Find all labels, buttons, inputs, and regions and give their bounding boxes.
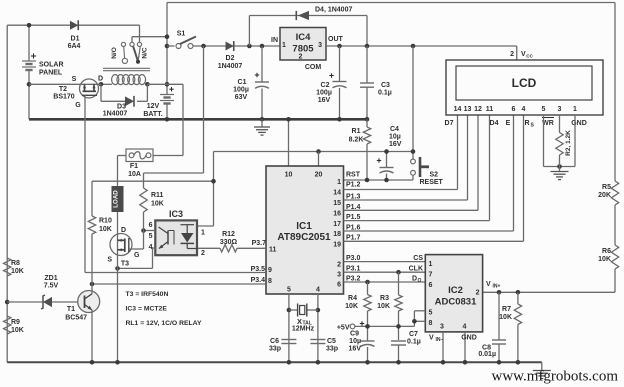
svg-text:16V: 16V (349, 346, 362, 353)
svg-text:V: V (429, 335, 434, 342)
svg-text:ADC0831: ADC0831 (435, 297, 477, 308)
svg-text:R4: R4 (348, 295, 357, 302)
svg-text:19: 19 (333, 242, 341, 249)
svg-text:7: 7 (429, 272, 433, 279)
svg-text:R9: R9 (11, 319, 20, 326)
svg-text:20: 20 (315, 172, 323, 179)
svg-text:ZD1: ZD1 (44, 275, 57, 282)
svg-text:6A4: 6A4 (68, 43, 81, 50)
svg-text:V: V (521, 51, 526, 58)
svg-text:www.mfgrobots.com: www.mfgrobots.com (492, 369, 619, 385)
svg-text:7.5V: 7.5V (44, 283, 59, 290)
svg-text:D: D (412, 276, 417, 283)
svg-text:RST: RST (346, 172, 361, 179)
svg-text:3: 3 (440, 324, 444, 331)
svg-text:S: S (107, 257, 112, 264)
svg-text:F1: F1 (130, 163, 138, 170)
svg-text:10K: 10K (377, 303, 390, 310)
svg-text:2: 2 (201, 250, 205, 257)
svg-text:RL1 = 12V, 1C/O RELAY: RL1 = 12V, 1C/O RELAY (126, 320, 202, 327)
svg-text:4: 4 (522, 106, 526, 113)
svg-text:P3.2: P3.2 (346, 276, 361, 283)
svg-text:T3 = IRF540N: T3 = IRF540N (126, 291, 169, 298)
svg-text:1: 1 (282, 42, 286, 49)
svg-text:8: 8 (429, 320, 433, 327)
svg-text:3: 3 (337, 272, 341, 279)
svg-text:BC547: BC547 (65, 315, 87, 322)
svg-text:16: 16 (333, 211, 341, 218)
svg-text:7805: 7805 (292, 44, 314, 55)
svg-text:IC2: IC2 (448, 285, 463, 296)
svg-text:T3: T3 (121, 261, 129, 268)
svg-text:R2, 1.2K: R2, 1.2K (565, 130, 572, 156)
svg-text:10K: 10K (11, 268, 24, 275)
svg-text:R10: R10 (99, 218, 112, 225)
svg-text:18: 18 (333, 231, 341, 238)
svg-text:SOLAR: SOLAR (39, 62, 64, 69)
svg-text:10K: 10K (99, 226, 112, 233)
svg-text:CLK: CLK (409, 266, 423, 273)
svg-text:GND: GND (461, 335, 477, 342)
svg-text:4: 4 (316, 287, 320, 294)
svg-text:0.01µ: 0.01µ (478, 351, 496, 358)
svg-text:C3: C3 (381, 82, 390, 89)
svg-text:16V: 16V (389, 141, 402, 148)
svg-text:10: 10 (285, 172, 293, 179)
svg-text:V: V (486, 281, 491, 288)
svg-text:S2: S2 (430, 172, 439, 179)
svg-text:P3.5: P3.5 (251, 266, 266, 273)
svg-text:10K: 10K (11, 327, 24, 334)
svg-text:P3.1: P3.1 (346, 266, 361, 273)
svg-text:1: 1 (337, 179, 341, 186)
svg-text:D: D (98, 76, 103, 83)
svg-text:6: 6 (429, 282, 433, 289)
svg-text:20K: 20K (598, 192, 611, 199)
svg-text:RESET: RESET (420, 179, 444, 186)
svg-text:63V: 63V (235, 94, 248, 101)
svg-text:4: 4 (463, 324, 467, 331)
svg-text:G: G (75, 102, 81, 109)
svg-text:C9: C9 (350, 331, 359, 338)
svg-text:O: O (418, 278, 422, 284)
svg-text:LCD: LCD (512, 76, 537, 90)
svg-text:10µ: 10µ (349, 338, 361, 345)
svg-text:P1.7: P1.7 (346, 235, 361, 242)
svg-text:N/C: N/C (142, 47, 149, 59)
svg-text:IN: IN (271, 37, 278, 44)
svg-text:3: 3 (318, 42, 322, 49)
svg-text:1: 1 (573, 106, 577, 113)
svg-text:AT89C2051: AT89C2051 (277, 232, 331, 243)
svg-text:8: 8 (268, 278, 272, 285)
svg-text:9: 9 (268, 267, 272, 274)
svg-text:D: D (121, 227, 126, 234)
svg-text:GND: GND (571, 120, 587, 127)
svg-text:IC1: IC1 (296, 221, 312, 232)
svg-text:14: 14 (454, 106, 462, 113)
svg-text:C4: C4 (390, 126, 399, 133)
svg-text:1: 1 (201, 230, 205, 237)
svg-text:+5V: +5V (337, 325, 350, 332)
svg-text:10A: 10A (128, 171, 141, 178)
svg-text:12MHz: 12MHz (292, 326, 315, 333)
svg-text:T2: T2 (59, 86, 67, 93)
svg-text:10K: 10K (598, 256, 611, 263)
svg-text:R11: R11 (151, 192, 164, 199)
svg-text:IN–: IN– (436, 337, 444, 343)
svg-text:S: S (72, 76, 77, 83)
svg-text:11: 11 (269, 247, 277, 254)
svg-text:0.1µ: 0.1µ (378, 90, 392, 97)
svg-text:P3.4: P3.4 (251, 277, 266, 284)
svg-text:P3.0: P3.0 (346, 255, 361, 262)
svg-text:IC3 = MCT2E: IC3 = MCT2E (126, 306, 168, 313)
svg-text:R5: R5 (602, 184, 611, 191)
svg-text:N/O: N/O (111, 47, 118, 59)
svg-text:R12: R12 (222, 231, 235, 238)
svg-text:D2: D2 (226, 55, 235, 62)
svg-text:CC: CC (526, 54, 533, 59)
svg-text:BS170: BS170 (53, 94, 75, 101)
svg-text:R8: R8 (11, 260, 20, 267)
svg-text:D4: D4 (490, 120, 499, 127)
svg-text:R1: R1 (352, 128, 361, 135)
svg-text:P1.2: P1.2 (346, 182, 361, 189)
svg-text:16V: 16V (318, 97, 331, 104)
svg-text:R7: R7 (502, 306, 511, 313)
svg-text:R6: R6 (602, 248, 611, 255)
svg-text:2: 2 (510, 51, 514, 58)
svg-text:2: 2 (476, 290, 480, 297)
svg-text:P1.5: P1.5 (346, 214, 361, 221)
svg-text:E: E (506, 120, 511, 127)
svg-text:17: 17 (333, 221, 341, 228)
svg-text:G: G (134, 252, 140, 259)
svg-text:LOAD: LOAD (113, 190, 120, 208)
svg-text:5: 5 (429, 310, 433, 317)
svg-text:13: 13 (464, 106, 472, 113)
svg-text:R: R (524, 120, 529, 127)
svg-text:12V: 12V (147, 103, 160, 110)
svg-text:P1.6: P1.6 (346, 224, 361, 231)
svg-text:33p: 33p (326, 346, 338, 353)
svg-text:COM: COM (305, 64, 322, 71)
svg-text:2: 2 (299, 54, 303, 61)
svg-text:10K: 10K (499, 314, 512, 321)
svg-text:330Ω: 330Ω (220, 239, 238, 246)
svg-text:R3: R3 (380, 295, 389, 302)
svg-text:CS: CS (413, 255, 423, 262)
svg-text:33p: 33p (269, 346, 281, 353)
svg-text:5: 5 (542, 106, 546, 113)
svg-text:1N4007: 1N4007 (218, 63, 243, 70)
svg-text:6: 6 (337, 282, 341, 289)
svg-text:5: 5 (149, 233, 153, 240)
svg-text:BATT.: BATT. (143, 111, 162, 118)
svg-text:P3.7: P3.7 (252, 240, 267, 247)
svg-text:12: 12 (474, 106, 482, 113)
svg-text:5: 5 (287, 287, 291, 294)
svg-text:IC4: IC4 (296, 32, 312, 43)
svg-text:1: 1 (429, 261, 433, 268)
svg-text:10µ: 10µ (389, 134, 401, 141)
svg-text:10K: 10K (345, 303, 358, 310)
svg-text:11: 11 (486, 106, 494, 113)
svg-text:C2: C2 (321, 82, 330, 89)
svg-text:T1: T1 (67, 306, 75, 313)
svg-text:P1.4: P1.4 (346, 204, 361, 211)
svg-text:8.2K: 8.2K (349, 137, 364, 144)
svg-text:6: 6 (512, 106, 516, 113)
svg-text:PANEL: PANEL (39, 70, 63, 77)
svg-text:C7: C7 (409, 331, 418, 338)
svg-text:C5: C5 (327, 338, 336, 345)
svg-text:3: 3 (558, 106, 562, 113)
svg-text:D3: D3 (117, 104, 126, 111)
svg-text:IN+: IN+ (493, 284, 501, 290)
svg-text:D7: D7 (445, 120, 454, 127)
svg-text:OUT: OUT (328, 36, 344, 43)
svg-text:15: 15 (333, 200, 341, 207)
svg-text:10K: 10K (151, 201, 164, 208)
svg-text:IC3: IC3 (169, 209, 183, 219)
svg-text:P1.3: P1.3 (346, 194, 361, 201)
svg-text:C6: C6 (270, 338, 279, 345)
svg-text:14: 14 (333, 190, 341, 197)
svg-text:S1: S1 (177, 31, 186, 38)
svg-text:1N4007: 1N4007 (103, 111, 128, 118)
svg-text:D1: D1 (71, 36, 80, 43)
svg-text:6: 6 (149, 222, 153, 229)
svg-text:100µ: 100µ (316, 90, 332, 97)
svg-text:100µ: 100µ (233, 87, 249, 94)
svg-text:C1: C1 (238, 79, 247, 86)
svg-text:0.1µ: 0.1µ (407, 339, 421, 346)
svg-text:2: 2 (337, 262, 341, 269)
svg-text:D4, 1N4007: D4, 1N4007 (315, 7, 352, 14)
